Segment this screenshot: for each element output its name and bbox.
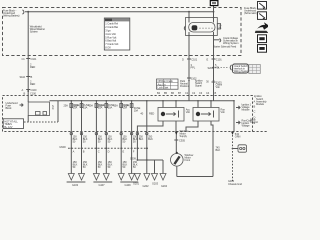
callout crank switch reference box: [233, 64, 250, 73]
splice block S101: [210, 1, 218, 6]
wire switch1 output left: [137, 121, 163, 131]
svg-text:C101: C101: [191, 58, 197, 62]
motor feed wire with arrow: [175, 129, 189, 154]
wire labels row 2: [73, 160, 138, 169]
node at bus right: [213, 11, 215, 13]
wire fuse4 output: [105, 131, 107, 174]
relay K1 coil core: [192, 25, 198, 30]
wire relay left leg top: [188, 12, 190, 18]
label windshield wiper: [30, 25, 45, 34]
dashed link from label box: [24, 121, 58, 123]
svg-text:20A: 20A: [99, 104, 104, 108]
svg-text:Volt: Volt: [186, 110, 190, 114]
svg-text:RED: RED: [149, 112, 154, 116]
ground G1: [68, 174, 74, 181]
wire risers into middle box: [188, 78, 190, 101]
fuse drop 6: [124, 100, 141, 131]
relay pin bracket left: [184, 26, 185, 30]
svg-text:Wiring System: Wiring System: [223, 41, 238, 45]
svg-text:Voltage: Voltage: [242, 124, 251, 128]
dotted reference link: [215, 67, 229, 69]
svg-text:1 Crank Rel: 1 Crank Rel: [105, 22, 118, 26]
wire label 2 RED second: [30, 80, 35, 87]
svg-text:Volt: Volt: [221, 110, 225, 114]
svg-text:Off Run Crank: Off Run Crank: [158, 79, 174, 83]
ground G8: [144, 174, 150, 181]
relay rectangle in fuse block: [28, 102, 49, 116]
svg-text:15A: 15A: [113, 104, 118, 108]
icon back: [258, 45, 267, 53]
bottom right labels: [228, 179, 242, 186]
svg-text:(Wiring Battery): (Wiring Battery): [3, 13, 20, 17]
label right of box2: [221, 108, 226, 115]
label underhood fuse block inside: [6, 101, 19, 110]
arrow connector into relay: [20, 104, 24, 107]
callout bracket: [230, 65, 231, 70]
splice S110: [20, 75, 33, 79]
svg-text:PPL: PPL: [191, 66, 196, 70]
node junction at S: [27, 11, 29, 13]
fuse drop 3: [89, 100, 105, 131]
icon grid table: [249, 65, 260, 74]
svg-text:G109: G109: [125, 183, 132, 187]
svg-text:25A: 25A: [64, 104, 69, 108]
wire switch2 output right: [211, 121, 213, 131]
svg-text:G202: G202: [143, 184, 150, 188]
legend table box: [104, 18, 130, 50]
svg-text:10A: 10A: [89, 104, 94, 108]
label block right of table: [180, 79, 189, 88]
connector C100 bracket: [23, 10, 25, 14]
connector arrow right 2: [236, 119, 254, 128]
svg-text:G204: G204: [161, 184, 168, 188]
motor M: [171, 152, 184, 166]
dashed stub bottom right of box: [253, 131, 269, 133]
wire label right leg: [215, 63, 220, 70]
svg-text:8 Off: 8 Off: [105, 46, 110, 50]
ground G6: [129, 174, 135, 181]
wire relay left leg down: [188, 36, 190, 79]
svg-text:D: D: [108, 150, 110, 154]
svg-text:Volt: Volt: [216, 85, 220, 89]
svg-text:C100: C100: [30, 92, 36, 96]
relay contacts small boxes: [36, 112, 41, 116]
svg-text:Supply: Supply: [180, 134, 188, 138]
wire switch2 output left: [186, 121, 198, 131]
wire fuse6 output: [130, 131, 132, 174]
ground G2: [79, 174, 85, 181]
svg-text:Block: Block: [6, 106, 13, 110]
svg-text:System: System: [30, 30, 38, 34]
ground pair bracket 3: [120, 182, 138, 187]
svg-text:2 Crank Bat: 2 Crank Bat: [105, 25, 118, 29]
wire riser from bus to dashed link: [57, 101, 59, 122]
label block near S102 riser: [195, 79, 203, 88]
svg-text:S309: S309: [130, 156, 136, 160]
svg-text:BLK: BLK: [139, 137, 144, 141]
wire labels row under box: [73, 135, 153, 144]
pin labels under splice line: [73, 150, 135, 154]
svg-text:C: C: [98, 150, 100, 154]
svg-text:Position: Position: [180, 84, 189, 88]
relay label: [219, 24, 222, 31]
ground pair bracket 2: [93, 182, 112, 187]
svg-text:C100: C100: [31, 88, 37, 92]
wire vertical battery drop: [27, 12, 29, 102]
ground G4: [103, 174, 109, 181]
wire fuse5 output: [120, 131, 122, 174]
svg-text:BLK: BLK: [216, 148, 221, 152]
svg-text:M100: M100: [60, 145, 67, 149]
svg-text:Signal: Signal: [195, 84, 202, 88]
wire fuse3 output: [95, 131, 97, 174]
svg-text:Acc On: Acc On: [158, 82, 167, 86]
svg-text:R: R: [52, 107, 54, 111]
svg-text:C305: C305: [179, 139, 185, 143]
icon zoom-out: [258, 12, 267, 20]
svg-text:C: C: [254, 109, 256, 113]
svg-text:G203: G203: [152, 182, 159, 186]
label box hot at all times: [3, 119, 23, 129]
icon pan arrow: [255, 22, 270, 33]
label right of crank wire: [216, 83, 223, 90]
wire fuse7 output: [136, 131, 138, 160]
ground G10: [160, 174, 166, 181]
ignition switch box 2: [193, 108, 219, 122]
svg-text:7 Crank Volt: 7 Crank Volt: [105, 42, 118, 46]
wire fuse2 output: [80, 131, 82, 174]
wires into box2: [197, 101, 199, 108]
svg-text:B+ 12V: B+ 12V: [4, 125, 12, 129]
wire relay right leg down: [213, 36, 215, 79]
connector bracket crank voltage: [213, 36, 239, 49]
svg-text:Lock Start: Lock Start: [158, 86, 169, 90]
motor label: [185, 153, 194, 162]
ground pair bracket 1: [67, 182, 86, 187]
wires into box1: [162, 101, 164, 108]
splice line M100 dashed: [60, 145, 149, 149]
relay K1 outer box: [186, 18, 218, 36]
ground labels cluster: [133, 182, 168, 189]
right outside labels middle: [254, 94, 268, 125]
svg-text:S205: S205: [208, 66, 214, 70]
dashed continuation wire: [231, 132, 240, 182]
node at bus: [188, 11, 190, 13]
wire label 2 RED: [30, 63, 35, 70]
svg-text:15A: 15A: [74, 104, 79, 108]
wire fuse1 output: [70, 131, 72, 174]
ground G7: [134, 174, 140, 181]
pin number row above border: [157, 91, 217, 95]
svg-text:Front: Front: [185, 158, 191, 162]
fuse drop 1: [64, 100, 80, 131]
svg-text:5 Run Volt: 5 Run Volt: [105, 35, 116, 39]
svg-text:20A: 20A: [108, 106, 113, 110]
svg-text:15A: 15A: [83, 106, 88, 110]
svg-text:G201: G201: [133, 182, 140, 186]
connector arrow right 1: [236, 103, 252, 112]
node wire dots at band: [188, 80, 190, 82]
splice S309 bar: [130, 156, 163, 173]
svg-text:D: D: [182, 58, 184, 62]
motor return wire: [176, 166, 178, 176]
labels above middle box at battery drop: [24, 92, 37, 96]
relay contact dots: [200, 27, 214, 29]
wire below relay rect: [27, 116, 29, 123]
label fuse block right outside: [244, 6, 257, 15]
svg-text:BLK: BLK: [148, 137, 153, 141]
svg-text:Control: Control: [250, 120, 258, 124]
wire stubs inside relay: [188, 18, 190, 23]
wire relay right leg top: [213, 6, 215, 18]
connector on motor wire: [174, 139, 185, 143]
svg-text:C101: C101: [31, 57, 37, 61]
connector marks right leg: [207, 58, 223, 62]
node relay top corners: [188, 17, 190, 19]
splice mark left leg: [187, 77, 197, 81]
ground G3: [93, 174, 99, 181]
wire fuse8 output: [146, 131, 148, 174]
wire main battery feed horizontal: [25, 11, 214, 13]
relay pin tab right: [217, 24, 220, 30]
icon print: [258, 35, 267, 43]
connector C2 stub: [232, 145, 247, 152]
svg-text:10A: 10A: [134, 109, 139, 113]
fuse drop 2: [74, 100, 90, 131]
svg-text:4 Acc Volt: 4 Acc Volt: [105, 32, 116, 36]
svg-text:G103: G103: [72, 183, 79, 187]
splice mark right leg: [212, 81, 223, 85]
svg-text:3 Ign: 3 Ign: [105, 29, 111, 33]
svg-text:RED: RED: [30, 65, 35, 69]
connector marks on battery drop C101: [22, 57, 37, 61]
middle ignition switch dashed enclosure: [3, 96, 253, 132]
ignition switch box 1: [158, 108, 184, 122]
svg-text:Module: Module: [242, 108, 251, 112]
svg-text:G107: G107: [99, 183, 106, 187]
fuse drop 5: [113, 100, 129, 131]
connector table above ignition switch: [157, 79, 179, 90]
relay K1 coil capsule: [189, 23, 215, 33]
svg-text:10A: 10A: [124, 104, 129, 108]
svg-text:6 Batt Volt: 6 Batt Volt: [105, 39, 116, 43]
label near return: [216, 146, 221, 153]
connector C100 entry: [22, 88, 37, 92]
wire label left leg: [191, 63, 196, 70]
wire switch1 output right to motor feed: [175, 121, 177, 131]
connector marks left leg: [182, 58, 198, 62]
fuse drop 7: [140, 100, 154, 131]
svg-text:S110: S110: [20, 75, 26, 79]
label between switch boxes: [186, 108, 191, 115]
svg-text:C101: C101: [216, 58, 222, 62]
fuse drop 4: [99, 100, 115, 131]
ground G9: [152, 174, 158, 181]
node splice on crank wire: [213, 67, 215, 69]
svg-text:Chassis Gnd: Chassis Gnd: [228, 182, 242, 186]
svg-text:(Schematic): (Schematic): [244, 11, 257, 15]
icon zoom-in: [258, 2, 267, 10]
label block top-left: [3, 8, 20, 17]
bus bar fuse block: [50, 100, 235, 102]
svg-text:RED: RED: [30, 82, 35, 86]
svg-text:Wiring System: Wiring System: [234, 69, 249, 73]
fuse block underhood dashed enclosure: [3, 8, 242, 56]
svg-text:Starter Solenoid Feed: Starter Solenoid Feed: [213, 45, 237, 49]
svg-text:Module: Module: [256, 102, 265, 106]
wire right vertical drop: [233, 101, 235, 131]
ground G5: [118, 174, 124, 181]
svg-text:ORN: ORN: [235, 135, 241, 139]
